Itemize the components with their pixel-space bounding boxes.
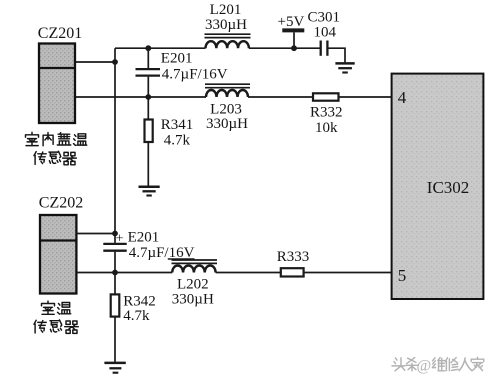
junction E201 bottom / lower rail [112, 270, 118, 276]
wire: sensor rail CZ201 pin2 to L203 [75, 96, 206, 98]
capacitor E201 (top) [136, 48, 161, 97]
inductor L203 [205, 84, 250, 97]
connector CZ201 [39, 44, 75, 124]
wire: R332 to IC302 pin 4 [339, 96, 393, 98]
svg-text:R333: R333 [277, 249, 310, 265]
ground (R341) [139, 187, 160, 196]
svg-text:C301: C301 [308, 9, 341, 25]
svg-text:L201: L201 [210, 2, 242, 18]
junction E201 top node [145, 45, 151, 51]
svg-text:330µH: 330µH [205, 17, 247, 33]
svg-text:4.7k: 4.7k [164, 133, 191, 149]
capacitor E201 (bottom) [103, 234, 126, 273]
svg-text:10k: 10k [315, 120, 338, 136]
svg-text:5: 5 [398, 266, 407, 285]
svg-text:R341: R341 [161, 117, 194, 133]
junction CZ202 pin1 / E201 node [112, 231, 118, 237]
svg-text:L202: L202 [177, 276, 209, 292]
wire: L203 to R332 [248, 96, 313, 98]
junction +5V node [291, 45, 297, 51]
svg-text:E201: E201 [128, 229, 160, 245]
junction E201 bottom / R341 node [145, 94, 151, 100]
ground (C301) [335, 63, 354, 72]
inductor L202 [172, 260, 218, 273]
ground (R342) [104, 363, 125, 373]
svg-text:4.7µF/16V: 4.7µF/16V [162, 66, 228, 82]
caption 室内盘温 [26, 132, 87, 145]
resistor R333 [281, 268, 304, 276]
svg-text:IC302: IC302 [427, 178, 470, 197]
connector CZ202 [40, 215, 76, 294]
svg-text:330µH: 330µH [172, 292, 214, 308]
svg-text:104: 104 [314, 24, 337, 40]
watermark 头条@维修人家 [392, 357, 484, 371]
caption 传感器 (CZ202) [34, 320, 78, 334]
resistor R341 [145, 97, 153, 186]
wire: top rail, L201 to C301 [249, 47, 321, 49]
caption 传感器 (CZ201) [34, 151, 76, 165]
svg-text:4.7k: 4.7k [123, 308, 150, 324]
svg-text:R342: R342 [123, 293, 156, 309]
resistor R342 [111, 273, 120, 362]
caption 室温 [42, 301, 71, 314]
wire: vertical bus from top rail corner down to CZ202 node [114, 48, 116, 233]
svg-text:CZ202: CZ202 [39, 195, 83, 212]
svg-text:CZ201: CZ201 [38, 25, 82, 42]
wire: top +5V rail, corner to L201 [115, 47, 206, 49]
svg-text:R332: R332 [310, 104, 343, 120]
wire: C301 to ground [327, 48, 345, 62]
svg-text:4: 4 [398, 88, 407, 107]
wire CZ201 pin1 to bus [75, 61, 115, 63]
wire: L202 to R333 [216, 272, 281, 274]
resistor R332 [313, 93, 339, 100]
wire: R333 to IC302 pin 5 [304, 272, 392, 274]
wire: CZ202 pin2 to L202 [76, 272, 172, 274]
junction CZ201 pin1 / bus [112, 59, 118, 65]
svg-text:@: @ [417, 358, 432, 375]
svg-text:+: + [116, 231, 124, 246]
capacitor C301 [321, 41, 328, 56]
inductor L201 [205, 34, 251, 48]
underline of 16V [168, 258, 195, 260]
IC U302 [392, 74, 484, 299]
svg-text:330µH: 330µH [206, 116, 248, 132]
svg-text:+5V: +5V [278, 14, 305, 30]
power +5V symbol [278, 14, 305, 48]
svg-text:E201: E201 [161, 50, 193, 66]
wire CZ202 pin1 to bus [76, 233, 115, 235]
